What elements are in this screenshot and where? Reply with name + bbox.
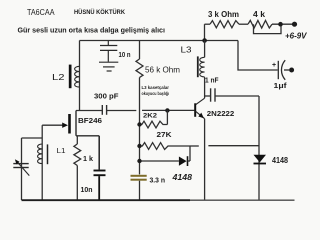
diode 4148 vertical (254, 96, 267, 200)
inductor L1 (41, 125, 43, 200)
pot wiper loop (254, 24, 282, 33)
ground (99, 62, 118, 71)
capacitor 300 pF (76, 105, 136, 115)
svg-text:56 k Ohm: 56 k Ohm (145, 66, 180, 75)
transistor 2N2222 (195, 98, 204, 119)
svg-text:1 nF: 1 nF (205, 76, 219, 85)
svg-text:4 k: 4 k (253, 9, 265, 19)
svg-text:10 n: 10 n (119, 50, 131, 59)
svg-text:27K: 27K (157, 130, 173, 139)
svg-text:3.3 n: 3.3 n (150, 177, 166, 184)
wire: base runner (142, 109, 194, 111)
svg-text:300 pF: 300 pF (94, 92, 119, 101)
wire: right drop to output cap (238, 41, 278, 71)
wire: ground rail (22, 199, 191, 201)
svg-text:+: + (272, 62, 276, 69)
svg-text:10n: 10n (81, 185, 93, 194)
svg-text:TA6CAA: TA6CAA (27, 7, 55, 17)
node 27K rail dot (137, 144, 141, 148)
svg-text:Gür sesli uzun orta kısa dalga: Gür sesli uzun orta kısa dalga gelişmiş … (18, 25, 166, 34)
L3 core bar (197, 56, 199, 77)
svg-text:L3 kasetçalar: L3 kasetçalar (142, 85, 170, 90)
svg-text:4148: 4148 (171, 173, 192, 182)
wire: tank branch (22, 137, 43, 139)
svg-text:L1: L1 (57, 146, 66, 155)
capacitor 1 nF (205, 88, 259, 101)
inductor L2 (75, 66, 80, 87)
svg-text:3 k Ohm: 3 k Ohm (208, 9, 239, 19)
node diode rail dot (137, 159, 141, 163)
svg-text:1μf: 1μf (274, 83, 288, 90)
wire: top supply rail y=24 (205, 24, 295, 40)
transistor BF246 (42, 111, 99, 136)
wire: left rail from top corner (79, 41, 81, 111)
svg-text:2N2222: 2N2222 (207, 109, 235, 118)
resistor 3 k Ohm (210, 21, 239, 28)
node base runner dot (165, 108, 169, 112)
capacitor 1μf electrolytic (278, 60, 289, 80)
node collector rail dot (202, 38, 207, 43)
svg-text:L3: L3 (181, 46, 193, 55)
svg-text:okuyucu başlığı: okuyucu başlığı (142, 91, 170, 96)
variable capacitor (13, 138, 29, 200)
diode 4148 horizontal (140, 156, 191, 166)
inductor L3 (204, 41, 206, 58)
resistor 56 k Ohm (136, 41, 143, 175)
capacitor 10n bypass (94, 136, 106, 200)
resistor 27K (140, 143, 260, 161)
resistor 2K2 (140, 110, 168, 128)
svg-text:2K2: 2K2 (143, 113, 157, 120)
capacitor 10n top (100, 41, 117, 62)
resistor 4 k (pot) (248, 20, 272, 28)
svg-text:HÜSNÜ KÖKTÜRK: HÜSNÜ KÖKTÜRK (74, 9, 126, 16)
svg-text:+6-9V: +6-9V (285, 31, 308, 41)
svg-text:1 k: 1 k (83, 154, 94, 163)
resistor 1 k (74, 136, 81, 200)
node dot pot/wiper (278, 22, 283, 27)
L2 core bar (69, 65, 72, 89)
wire: collector rail y=40.5 (80, 40, 239, 42)
svg-text:BF246: BF246 (78, 116, 102, 125)
node 2K2 rail dot (137, 122, 141, 126)
svg-text:L2: L2 (52, 73, 65, 82)
capacitor 3.3 n (131, 175, 147, 200)
wire: emitter drop (204, 119, 206, 200)
node dot +V terminal (292, 22, 297, 27)
L1 core bar (47, 144, 49, 164)
node output terminal (289, 68, 294, 73)
svg-text:4148: 4148 (272, 155, 288, 165)
